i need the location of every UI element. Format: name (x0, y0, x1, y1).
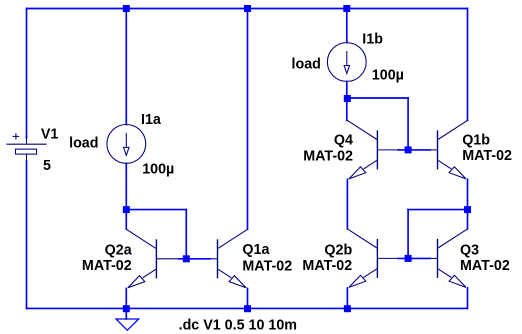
wire Q4-Q1b base rail (398, 149, 430, 151)
transistor Q4 (347, 120, 377, 179)
svg-text:Q3: Q3 (460, 242, 479, 258)
svg-text:load: load (292, 57, 321, 73)
transistor Q2b (347, 229, 377, 288)
wire Q4 emitter to Q2b collector (346, 179, 348, 229)
wire node to lower base link horizontal (408, 209, 467, 211)
wire Q2a collector lead (125, 210, 127, 230)
wire I1b node horizontal (347, 97, 408, 99)
svg-text:100µ: 100µ (142, 161, 174, 177)
node junction Q1a emitter (244, 305, 251, 312)
wire Q4 base lead (377, 149, 398, 151)
svg-text:MAT-02: MAT-02 (462, 148, 512, 164)
wire ground stub (125, 308, 127, 319)
wire Q2a emitter lead (125, 288, 127, 308)
wire Q2b-Q3 base rail (398, 257, 430, 259)
svg-text:5: 5 (43, 158, 51, 174)
svg-text:load: load (69, 136, 98, 152)
transistor Q2a (126, 229, 156, 288)
node junction Q1a collector top (244, 5, 251, 12)
wire top rail (27, 8, 468, 10)
svg-text:Q4: Q4 (334, 133, 353, 149)
svg-text:Q2b: Q2b (324, 242, 352, 258)
wire bottom rail (27, 307, 468, 309)
node junction Q1b emitter / Q3 collector (464, 206, 471, 213)
wire lower base link vertical (407, 210, 409, 259)
wire Q3 base lead (430, 257, 438, 259)
svg-text:MAT-02: MAT-02 (302, 258, 352, 274)
current source I1a (107, 124, 146, 163)
node junction I1b bottom (344, 95, 351, 102)
wire Q1b base lead (430, 149, 438, 151)
wire left edge upper (V+ to V1) (26, 9, 28, 139)
node junction I1a top (123, 5, 130, 12)
svg-text:V1: V1 (41, 127, 59, 143)
wire Q1a emitter lead (247, 288, 249, 308)
current source I1b (327, 43, 366, 82)
wire Q2a-Q1a base rail (179, 258, 210, 260)
transistor Q1a (218, 229, 248, 288)
wire I1a bottom to node (125, 163, 127, 209)
svg-text:I1a: I1a (141, 112, 162, 128)
wire Q1b emitter lead (467, 179, 469, 209)
svg-text:Q1a: Q1a (242, 242, 270, 258)
svg-text:.dc V1 0.5 10 10m: .dc V1 0.5 10 10m (179, 317, 297, 333)
node junction ground (123, 305, 130, 312)
wire I1a top lead (125, 9, 127, 125)
wire Q1a base lead (210, 258, 218, 260)
wire Q3 collector lead (467, 210, 469, 229)
wire left edge lower (V1 to bottom rail) (26, 161, 28, 308)
svg-text:MAT-02: MAT-02 (82, 258, 132, 274)
wire Q2a base lead (156, 258, 179, 260)
wire Q2b base lead (377, 257, 398, 259)
svg-text:100µ: 100µ (372, 68, 404, 84)
wire Q1a collector lead (247, 9, 249, 230)
wire Q2b emitter lead (346, 288, 348, 309)
node junction Q2a-Q1a bases (183, 255, 190, 262)
node junction Q4-Q1b bases (405, 146, 412, 153)
voltage source V1 (6, 133, 46, 161)
wire I1b node to Q4 base vertical (407, 98, 409, 150)
wire node to base link horizontal (126, 209, 186, 211)
wire I1b top lead (346, 9, 348, 43)
node junction Q2b emitter (344, 305, 351, 312)
wire Q4 collector lead (346, 98, 348, 120)
svg-text:MAT-02: MAT-02 (460, 258, 510, 274)
node junction I1b top (343, 5, 350, 12)
wire base link vertical (185, 210, 187, 259)
svg-text:I1b: I1b (362, 32, 383, 48)
wire I1b bottom lead (346, 81, 348, 98)
svg-text:MAT-02: MAT-02 (303, 148, 353, 164)
svg-text:Q1b: Q1b (462, 133, 490, 149)
svg-text:MAT-02: MAT-02 (242, 258, 292, 274)
node junction Q2b-Q3 bases (405, 255, 412, 262)
wire right edge (Q1b collector lead) (467, 9, 469, 121)
node junction Q2a collector (123, 206, 130, 213)
wire Q3 emitter lead (467, 288, 469, 309)
transistor Q1b (438, 120, 468, 179)
transistor Q3 (438, 229, 468, 288)
svg-text:Q2a: Q2a (105, 242, 133, 258)
ground (116, 319, 139, 330)
